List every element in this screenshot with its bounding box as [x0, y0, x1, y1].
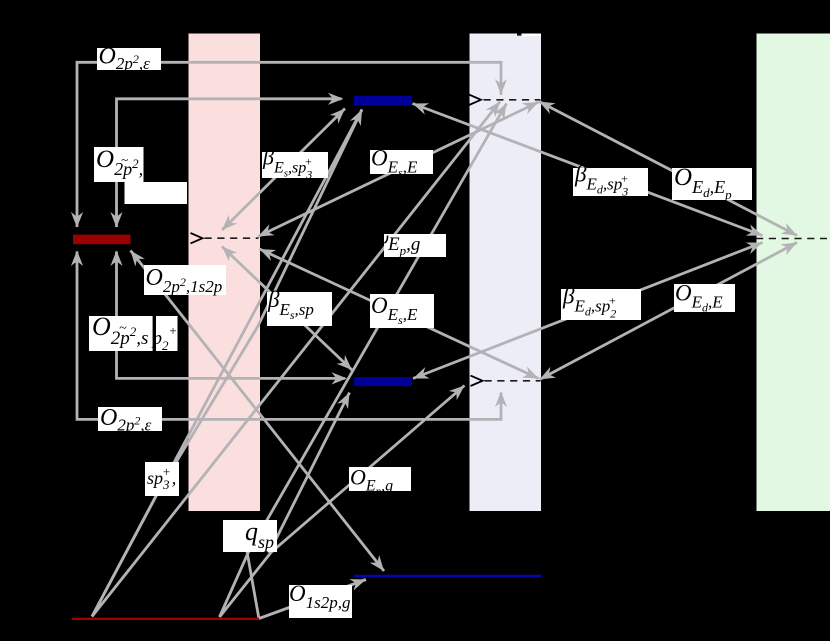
coupling O_Ed,E	[540, 243, 798, 380]
band: E_d continuum (green)	[757, 34, 830, 512]
label beta_Ed,sp3+	[573, 168, 648, 196]
label O_2p2,eps (top)	[97, 48, 161, 70]
coupling beta_Es,sp2+	[222, 247, 352, 371]
clipped label sliver at top of lavender band	[517, 34, 542, 37]
coupling q_sp to sp2+ bar	[269, 393, 350, 554]
label O_2p~2,sp2+	[89, 316, 178, 351]
label sp3+, fragment	[145, 462, 179, 496]
label O_Es,E lower	[370, 294, 434, 328]
coupling beta_Ed,sp3+	[413, 104, 763, 236]
dashed level 1 in lavender band	[484, 99, 541, 101]
node: E_s continuum level marker (chevron)	[191, 233, 203, 243]
label O_2p2,1s2p	[144, 265, 226, 295]
dashed level in E_s band	[205, 237, 259, 239]
dashed level in E_d band	[756, 238, 827, 240]
node: dashed level 1 marker (chevron)	[469, 95, 481, 105]
level 2p^2 (dark red bar)	[73, 235, 131, 245]
node: dashed level 2 marker (chevron)	[471, 376, 483, 386]
ground level g (dark red line)	[72, 618, 259, 620]
label O_2p~2	[94, 147, 144, 182]
coupling beta_Es,sp3+	[222, 109, 345, 231]
svg-text:~: ~	[121, 152, 128, 167]
Fano q_sp coupling: g to dashed level 1	[220, 104, 507, 618]
dashed level 2 in lavender band	[485, 380, 541, 382]
wire O_2p2,eps top path	[77, 62, 501, 227]
svg-text:sp3+,: sp3+,	[147, 464, 176, 492]
coupling beta_Ed,sp2+	[413, 243, 763, 379]
label O_Ep,g (mid)	[384, 234, 446, 257]
label continuation box (blank)	[125, 182, 188, 204]
label beta_Es,sp lower	[267, 292, 332, 326]
wire O_2p2,eps bottom path	[77, 252, 501, 420]
coupling O_Ep,g : g to dashed level 1	[92, 102, 500, 617]
level sp3+ (navy bar)	[354, 96, 412, 105]
label O_Ed,Ep	[672, 168, 752, 200]
label beta_Ed,sp2+	[561, 289, 641, 320]
stem g right end to q_sp label	[247, 552, 259, 620]
label O_2p2,eps (bottom)	[98, 407, 162, 431]
excitation g to sp3+ via label (line S)	[92, 110, 362, 617]
label O_Es,E upper	[370, 150, 433, 174]
label O_Ep,g (lower)	[349, 467, 411, 491]
wire O_2p~2 path to sp3+ bar	[117, 99, 342, 227]
excitation g to sp3+ (line L1)	[92, 110, 362, 617]
coupling O_Ed,Ep	[539, 102, 797, 236]
coupling O_2p2,1s2p	[131, 251, 385, 572]
coupling O_Es,E lower	[260, 249, 539, 379]
level sp2+ (navy bar)	[354, 377, 412, 386]
svg-text:~: ~	[119, 321, 127, 336]
coupling O_Ep,g lower: g to dashed level 2	[220, 386, 465, 618]
wire O_2p~2,sp2+ path to sp2+ bar	[117, 252, 346, 379]
band: E / E_p continuum (lavender)	[470, 34, 542, 512]
label O_1s2p,g	[289, 585, 352, 618]
label beta_Es,sp3+	[262, 152, 328, 178]
band: E_s continuum (pink)	[189, 34, 261, 512]
label O_Ed,E	[674, 284, 735, 312]
coupling O_Es,E upper	[258, 102, 539, 237]
label q_sp	[223, 520, 277, 552]
coupling O_1s2p,g	[259, 580, 366, 619]
level 1s2p (blue line)	[354, 575, 541, 578]
